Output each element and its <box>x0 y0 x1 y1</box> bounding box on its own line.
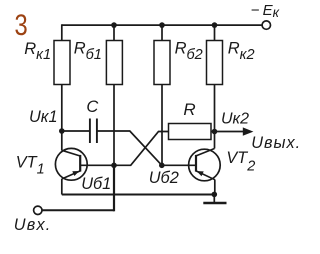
resistor Rb2 <box>154 41 170 85</box>
capacitor C right plate <box>96 119 98 144</box>
wire capacitor left lead <box>62 130 90 132</box>
wire Rk1 bottom down to VT1 collector <box>61 85 63 151</box>
wire capacitor right lead to diagonal <box>97 131 162 165</box>
wire VT1 emitter down <box>61 179 63 195</box>
svg-text:Uк1: Uк1 <box>29 108 58 126</box>
transistor VT2 <box>189 149 221 181</box>
wire Rb2 bottom down to VT2 base node <box>161 85 163 166</box>
wire emitter run to ground <box>62 194 215 196</box>
terminal Uvx <box>34 206 42 214</box>
capacitor C left plate <box>89 119 91 144</box>
node rail-Rk2 <box>212 22 218 28</box>
wire VT2 emitter down <box>214 180 216 195</box>
transistor VT2 emitter arrow <box>197 171 204 176</box>
wire input vertical up to base node <box>113 165 115 211</box>
resistor Rk1 <box>54 41 70 85</box>
transistor VT1 <box>55 148 87 180</box>
wire input horizontal <box>42 209 114 211</box>
svg-text:Uб2: Uб2 <box>149 169 179 187</box>
wire rail corner down to Rk1 <box>61 24 63 40</box>
resistor Rk2 <box>207 41 223 85</box>
node emitter-ground junction <box>212 192 218 198</box>
wire stub rail to Rb1 <box>113 25 115 40</box>
output arrowhead <box>243 127 254 135</box>
wire Rk2 bottom down to Uk2 node <box>214 85 216 149</box>
node rail-Rb2 <box>159 22 165 28</box>
wire VT1 base lead to diagonal up to R <box>80 132 168 166</box>
terminal -Ek <box>262 21 270 29</box>
resistor Rb1 <box>106 41 122 85</box>
svg-text:Uвх.: Uвх. <box>14 216 52 234</box>
wire Rb1 bottom down to VT1 base node <box>113 85 115 166</box>
svg-text:Uвых.: Uвых. <box>251 134 301 152</box>
node Ub2 base junction <box>159 163 165 169</box>
svg-text:C: C <box>86 98 98 116</box>
ground <box>203 202 226 204</box>
resistor R <box>169 124 212 140</box>
wire stub rail to Rk2 <box>214 25 216 40</box>
wire VT2 base lead <box>162 164 196 166</box>
wire top rail <box>62 24 262 26</box>
wire R right lead <box>211 131 215 133</box>
wire stub rail to Rb2 <box>161 25 163 40</box>
transistor VT1 emitter arrow <box>72 171 79 176</box>
svg-text:Uк2: Uк2 <box>221 111 249 128</box>
node rail-Rb1 <box>111 22 117 28</box>
node Uk2 junction <box>212 129 218 135</box>
node Uk1 capacitor junction <box>59 128 65 134</box>
wire ground drop <box>213 194 215 202</box>
capacitor C plates <box>90 119 97 144</box>
node Ub1 base junction <box>111 163 117 169</box>
wire output line <box>215 131 245 133</box>
svg-text:−Eк: −Eк <box>251 2 280 20</box>
svg-text:R: R <box>183 100 195 119</box>
svg-text:3: 3 <box>15 9 28 42</box>
svg-text:Uб1: Uб1 <box>81 175 111 193</box>
